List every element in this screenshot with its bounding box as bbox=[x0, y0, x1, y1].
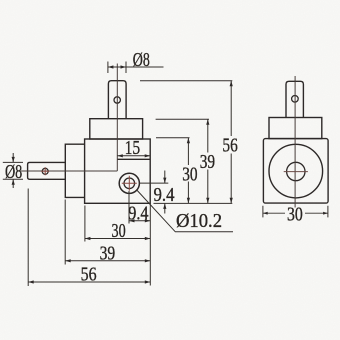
vertical shaft cross-hole bbox=[114, 97, 120, 103]
dim 9.4 right: hub center extension bbox=[140, 182, 168, 184]
dim Ø8 left: arrow stubs bbox=[12, 153, 14, 188]
scan noise overlay bbox=[0, 0, 1, 1]
dim 15: dimension line bbox=[117, 155, 150, 157]
dim 30 bottom arrows bbox=[85, 237, 91, 240]
dim 39 right: line segments bbox=[207, 119, 209, 203]
boss (side view) bbox=[269, 118, 322, 139]
dim Ø8 left arrows bbox=[12, 157, 15, 163]
hub crosshair bbox=[122, 176, 137, 191]
left shaft (front view) bbox=[28, 162, 66, 179]
dim 39 bottom: dimension line bbox=[65, 260, 150, 262]
center line vertical shaft bbox=[116, 64, 118, 172]
dim 56 bottom arrows bbox=[28, 280, 34, 283]
dim 56 bottom: dimension line bbox=[28, 281, 150, 283]
arrowheads bbox=[12, 65, 233, 283]
dim Ø8 top arrows bbox=[108, 65, 114, 68]
dim 39 right arrows bbox=[206, 119, 209, 125]
center line vertical (side view) bbox=[294, 76, 296, 208]
dim Ø8 left: extension ticks bbox=[3, 162, 23, 179]
dim 30 side: line segments bbox=[263, 212, 328, 214]
shaft (side view) bbox=[286, 81, 303, 117]
bottom dims extension lines bbox=[28, 189, 85, 287]
center line bore (side view) bbox=[284, 171, 308, 173]
flange circle (side view) bbox=[269, 144, 323, 198]
dim 9.4 right arrows bbox=[163, 178, 166, 184]
left collar (front view) bbox=[65, 144, 84, 197]
dim 30 side: extension ticks bbox=[263, 206, 328, 218]
body square (side view) bbox=[263, 139, 328, 204]
left hole crosshair bbox=[41, 167, 49, 175]
dim 56 right arrows bbox=[230, 81, 233, 87]
dim 30 right: line segments bbox=[187, 138, 189, 204]
dim 9.4 bottom: extension lines bbox=[129, 191, 150, 286]
dim 39 bottom arrows bbox=[65, 259, 71, 262]
dim Ø8 top: dimension line bbox=[108, 66, 164, 68]
dim 15 arrows bbox=[117, 154, 123, 157]
internal step edge under 15 dim bbox=[117, 158, 150, 160]
hub bore circle (front view) bbox=[124, 178, 135, 189]
dim Ø8 top: extension lines bbox=[108, 62, 126, 74]
top boss (front view) bbox=[90, 119, 143, 139]
left shaft cross-hole bbox=[42, 168, 48, 174]
dimension texts bbox=[5, 47, 238, 285]
dim 56 right: line segments bbox=[230, 81, 232, 204]
center line left shaft bbox=[21, 170, 117, 172]
dim 30 right arrows bbox=[187, 138, 190, 144]
bore circle (side view) bbox=[287, 162, 305, 180]
vertical shaft (front view) bbox=[108, 81, 126, 119]
shaft hole (side view) bbox=[292, 96, 299, 103]
dim 30 bottom: dimension line bbox=[85, 238, 150, 240]
right dims extension lines bbox=[140, 81, 232, 204]
hub outer circle (front view) bbox=[119, 173, 139, 193]
dim 30 side arrows bbox=[263, 212, 268, 215]
dim 9.4 bottom arrows bbox=[129, 219, 135, 222]
leader line Ø10.2 bbox=[137, 190, 233, 232]
dim 9.4 right: arrow stubs bbox=[164, 171, 166, 214]
gearbox body (front view) bbox=[85, 139, 151, 203]
dim 9.4 bottom: dimension line bbox=[129, 220, 150, 222]
